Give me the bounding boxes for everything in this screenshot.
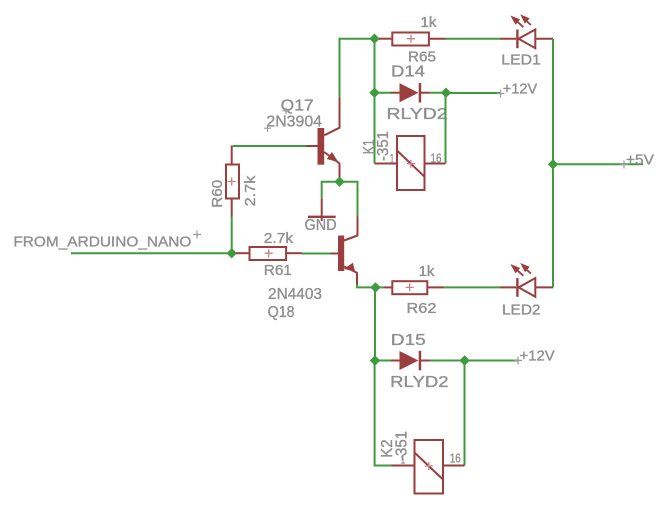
transistor Q17 2N3904 (306, 98, 340, 182)
wire J3 to D14 anode (375, 92, 392, 94)
diode D15 RLYD2 (391, 351, 430, 371)
supply +5V (620, 152, 654, 168)
wire Q18 collector corner to J7 (357, 284, 376, 287)
svg-text:RLYD2: RLYD2 (390, 374, 448, 391)
junction J9 D15 right / +12V (459, 355, 469, 365)
wire J7 down to D15 (374, 287, 376, 360)
resistor R62 (384, 281, 444, 294)
wire R62 to LED2 (444, 286, 500, 288)
svg-text:2.7k: 2.7k (264, 231, 294, 247)
transistor Q18 2N4403 (330, 217, 358, 287)
wire LED2 up to +5V junction (552, 164, 554, 287)
svg-text:16: 16 (450, 451, 461, 465)
relay coil K1 (375, 136, 446, 190)
wire D15 cathode to J9 (430, 360, 465, 362)
resistor R60 (226, 146, 239, 217)
resistor R61 (250, 247, 303, 260)
junction J1 top wire / K1 branch (369, 34, 379, 44)
svg-text:LED2: LED2 (502, 302, 541, 318)
supply +12V upper (497, 81, 538, 97)
wire +5V net (553, 163, 643, 165)
svg-text:LED1: LED1 (501, 52, 541, 68)
svg-text:2N4403: 2N4403 (268, 286, 322, 303)
wire vertical junction J6 up to R60 (231, 217, 233, 254)
wire K1 right branch vertical (445, 93, 447, 164)
wire J5 left to GND (322, 182, 340, 199)
wire R65 to LED1 (446, 38, 501, 40)
svg-text:R61: R61 (264, 263, 292, 279)
wire LED1 down to +5V junction (552, 39, 554, 165)
label FROM_ARDUINO_NANO (13, 231, 201, 251)
label 2N3904 (264, 114, 322, 132)
label Q17 (281, 98, 314, 115)
svg-text:16: 16 (431, 151, 442, 165)
junction J5 Q17 emitter (334, 177, 344, 187)
wire R61 net from input (236, 252, 250, 254)
wire R61 to Q18 base (302, 253, 331, 255)
wire Q17 base net (233, 145, 306, 147)
wire Q17 collector vertical (339, 38, 341, 98)
junction J2 D14 right / +12V (441, 88, 451, 98)
junction J7 Q18 collector / R62 (370, 282, 380, 292)
diode D14 RLYD2 (391, 83, 430, 103)
wire input net FROM_ARDUINO_NANO horizontal (71, 252, 234, 254)
svg-text:+12V: +12V (503, 81, 538, 97)
junction J6 at R60 bottom (227, 248, 237, 258)
wire +12V net upper (446, 92, 500, 94)
svg-text:D15: D15 (391, 332, 426, 349)
svg-text:Q18: Q18 (268, 304, 295, 321)
wire +12V net lower (465, 360, 519, 362)
svg-text:2N3904: 2N3904 (266, 114, 322, 131)
wire D14 cathode to J2 (430, 92, 447, 94)
junction J8 D15 left (370, 355, 380, 365)
svg-text:1: 1 (390, 152, 395, 166)
LED2 (500, 264, 553, 297)
wire K1 left branch vertical (374, 39, 376, 164)
relay coil K2 (392, 440, 465, 494)
junction J3 D14 left (369, 88, 379, 98)
wire K2 right branch vertical (464, 361, 466, 466)
svg-text:1k: 1k (419, 264, 436, 280)
svg-text:1k: 1k (421, 15, 438, 31)
svg-text:GND: GND (305, 217, 337, 234)
wire J5 right down to Q18 emitter (340, 182, 358, 217)
supply +12V lower (514, 348, 555, 364)
ground GND (308, 198, 336, 221)
svg-text:2.7k: 2.7k (243, 175, 259, 207)
svg-text:R60: R60 (210, 180, 226, 208)
svg-text:+12V: +12V (520, 348, 555, 364)
svg-text:FROM_ARDUINO_NANO: FROM_ARDUINO_NANO (13, 234, 191, 250)
svg-text:1: 1 (401, 453, 406, 467)
svg-text:+5V: +5V (626, 152, 654, 168)
junction J4 +5V (548, 159, 558, 169)
wire top horizontal to R65 (339, 38, 381, 40)
svg-text:R62: R62 (407, 301, 437, 317)
wire K2 left branch vertical (375, 361, 392, 466)
svg-text:RLYD2: RLYD2 (387, 106, 448, 123)
LED1 (500, 15, 553, 48)
resistor R65 (379, 33, 446, 46)
svg-text:D14: D14 (391, 64, 425, 81)
wire J8 to D15 anode (375, 360, 391, 362)
wire J7 to R62 (376, 286, 385, 288)
